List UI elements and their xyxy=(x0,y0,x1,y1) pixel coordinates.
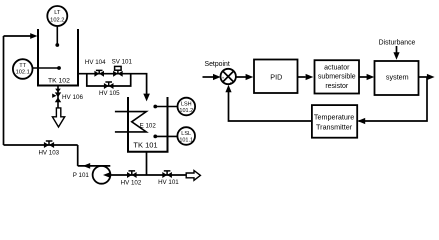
svg-text:102.1: 102.1 xyxy=(16,70,30,76)
wire LSH connection xyxy=(155,106,177,108)
tank TK 101 xyxy=(128,97,168,152)
svg-text:TK 102: TK 102 xyxy=(48,78,70,85)
svg-text:Temperature: Temperature xyxy=(314,113,354,122)
node LT probe dot xyxy=(55,43,59,47)
svg-text:101.1: 101.1 xyxy=(179,137,193,143)
valve HV 101 xyxy=(162,171,172,178)
wire disturbance xyxy=(396,46,398,53)
block PID xyxy=(254,60,298,94)
svg-text:LSL: LSL xyxy=(181,131,191,137)
wire PID to actuator xyxy=(298,76,306,78)
arrowhead disturbance into system xyxy=(393,52,399,60)
node LSL probe dot xyxy=(153,135,157,139)
wire left vertical recirculation line xyxy=(3,36,5,145)
arrowhead into temperature transmitter xyxy=(358,118,366,124)
wire bypass loop xyxy=(87,74,131,86)
block Temperature Transmitter xyxy=(312,105,357,138)
wire summing to PID xyxy=(237,76,247,78)
valve HV 105 xyxy=(104,82,114,89)
label Temperature Transmitter xyxy=(314,113,354,132)
wire setpoint input xyxy=(203,76,215,78)
svg-text:+: + xyxy=(222,76,225,81)
wire system output xyxy=(419,76,429,78)
arrowhead into system xyxy=(367,74,375,80)
arrowhead output xyxy=(427,74,435,80)
node TT probe dot xyxy=(57,66,61,70)
instrument LSL 101.1 xyxy=(177,127,195,145)
svg-text:HV 106: HV 106 xyxy=(62,94,84,101)
arrowhead down into TK101 xyxy=(143,94,150,102)
svg-text:P 101: P 101 xyxy=(73,172,90,179)
valve HV 104 xyxy=(94,70,104,76)
wire TT connection xyxy=(33,67,60,69)
svg-text:101.2: 101.2 xyxy=(179,108,193,114)
svg-text:HV 103: HV 103 xyxy=(38,149,59,156)
svg-text:resistor: resistor xyxy=(325,83,349,90)
svg-text:actuator: actuator xyxy=(324,64,350,71)
arrowhead up into summing junction xyxy=(225,85,231,93)
wire LSL connection xyxy=(155,135,177,137)
wire pump suction and bottom line xyxy=(110,174,185,176)
wire pump outlet tangent line xyxy=(78,165,111,167)
arrowhead into summing junction xyxy=(213,74,221,80)
svg-text:SV 101: SV 101 xyxy=(112,59,133,66)
wire TK102 drain xyxy=(57,86,59,108)
svg-text:submersible: submersible xyxy=(318,74,356,81)
svg-text:PID: PID xyxy=(270,73,282,82)
instrument TT 102.1 xyxy=(13,59,33,79)
node LSH probe dot xyxy=(153,105,157,109)
instrument LT 102.2 xyxy=(47,6,67,26)
wire inlet to TK102 xyxy=(4,35,32,37)
valve HV 103 xyxy=(44,141,54,148)
wire TK101 bottom drop xyxy=(146,152,148,175)
label actuator submersible resistor xyxy=(318,64,356,90)
tank TK 102 xyxy=(38,29,78,86)
wire bottom horizontal to HV103 xyxy=(4,144,78,146)
valve HV 102 xyxy=(127,171,137,178)
arrowhead pump outlet flow left xyxy=(83,163,90,169)
arrowhead into actuator xyxy=(306,74,314,80)
arrowhead into TK102 xyxy=(30,33,37,39)
wire actuator to system xyxy=(359,76,367,78)
pump P 101 xyxy=(93,166,111,184)
wire feedback to summing junction xyxy=(229,91,312,122)
svg-text:HV 102: HV 102 xyxy=(121,179,142,186)
heater E 102 xyxy=(115,112,146,132)
svg-text:LT: LT xyxy=(54,10,61,16)
valve HV 106 vertical xyxy=(52,92,61,102)
svg-text:TT: TT xyxy=(19,63,26,69)
svg-text:HV 104: HV 104 xyxy=(85,59,106,66)
wire main line TK102 to TK101 xyxy=(78,74,147,94)
hollow arrow drain down xyxy=(52,108,64,127)
wire feedback branch xyxy=(359,77,428,121)
svg-text:102.2: 102.2 xyxy=(50,18,64,24)
svg-text:Setpoint: Setpoint xyxy=(205,61,230,68)
svg-text:system: system xyxy=(386,73,409,82)
arrowhead down above HV106 xyxy=(55,89,61,93)
instrument LSH 101.2 xyxy=(178,98,196,116)
svg-text:TK 101: TK 101 xyxy=(133,141,157,150)
svg-text:HV 101: HV 101 xyxy=(158,179,179,186)
summing junction xyxy=(221,69,236,85)
wire riser from pump outlet xyxy=(77,145,79,166)
block actuator submersible resistor xyxy=(315,60,360,93)
arrowhead into PID xyxy=(246,74,254,80)
hollow arrow outlet right xyxy=(186,171,200,181)
svg-text:Transmitter: Transmitter xyxy=(316,122,353,131)
svg-text:E 102: E 102 xyxy=(140,123,157,130)
wire LT stem xyxy=(56,26,58,45)
arrowhead into pump xyxy=(103,172,110,178)
block system xyxy=(375,61,419,95)
svg-text:HV 105: HV 105 xyxy=(99,90,120,97)
valve SV 101 xyxy=(113,66,123,76)
svg-text:LSH: LSH xyxy=(181,102,192,108)
svg-text:Disturbance: Disturbance xyxy=(379,39,416,46)
